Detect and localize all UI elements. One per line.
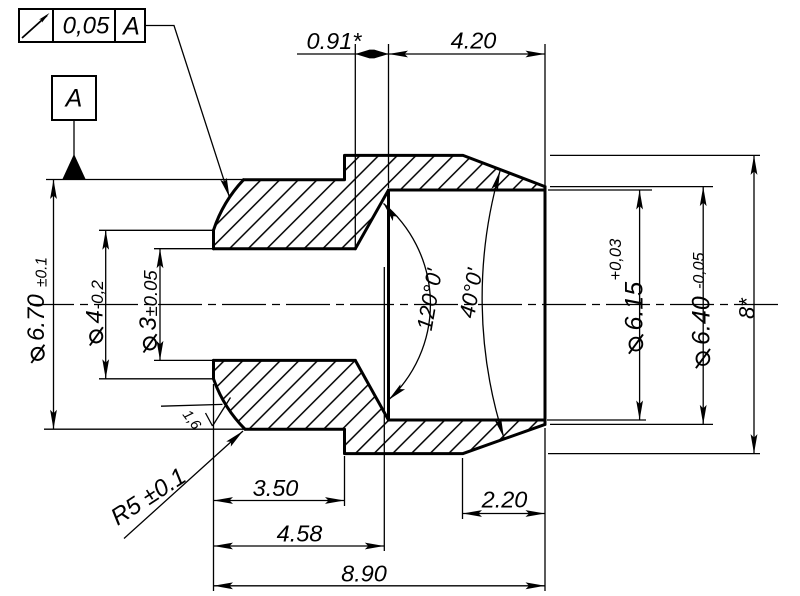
3.50 arrows — [214, 497, 234, 504]
4.58 arrows — [214, 543, 234, 550]
svg-text:A: A — [121, 13, 140, 41]
dim line 0.91 and 4.20 — [297, 53, 545, 55]
datum box — [52, 76, 96, 120]
hatch upper section — [205, 145, 555, 260]
svg-text:8.90: 8.90 — [341, 561, 387, 587]
centerline — [30, 304, 778, 306]
R5 leader arrow — [226, 428, 245, 446]
ext line 2.20 left — [462, 458, 464, 519]
svg-text:6.15: 6.15 — [621, 282, 649, 331]
ext line bottom left common — [213, 384, 215, 591]
ext line dia3 bottom — [154, 359, 213, 361]
svg-text:3.50: 3.50 — [253, 475, 299, 501]
svg-text:6.70: 6.70 — [23, 294, 50, 341]
tolerance frame — [19, 9, 145, 42]
tolerance leader arrow — [220, 178, 232, 199]
roughness tail — [161, 404, 223, 406]
leader tolerance frame — [145, 26, 230, 198]
dim line dia6.15 — [639, 190, 641, 420]
R5 corner bottom — [214, 379, 246, 429]
svg-text:-0,2: -0,2 — [88, 280, 107, 310]
dia 4 value — [82, 310, 109, 345]
dia 3 value — [135, 317, 162, 353]
cone 120 bottom — [355, 360, 388, 420]
svg-text:0.91*: 0.91* — [307, 28, 363, 54]
svg-text:4: 4 — [82, 310, 109, 323]
dim line 2.20 — [463, 513, 546, 515]
0.91 diamond arrows — [355, 50, 388, 59]
cone 120 top — [355, 190, 388, 249]
8.90 arrows — [214, 582, 234, 589]
svg-text:6.40: 6.40 — [688, 296, 716, 345]
dia3 arrows — [157, 249, 164, 269]
bore line top (dia 3) — [214, 247, 356, 250]
dia 6.40 value — [688, 296, 716, 368]
svg-text:-0,05: -0,05 — [691, 252, 708, 289]
ext line 4.20 right — [544, 44, 546, 185]
svg-text:±0.1: ±0.1 — [34, 257, 51, 287]
dim line 8.90 — [214, 585, 546, 587]
dim line 3.50 — [214, 500, 345, 502]
dia4 arrows — [102, 230, 109, 250]
ext line 0.91 right / 4.20 left — [388, 44, 390, 188]
left face lower — [212, 360, 215, 378]
dia6.40 arrows — [700, 187, 707, 207]
4.20 arrows — [389, 51, 409, 58]
ext line 3.50 right — [344, 456, 346, 506]
dia6.70 arrows — [50, 180, 57, 200]
ext line 0.91 left — [354, 44, 356, 248]
bore line top (dia 6.15) — [389, 189, 546, 192]
svg-text:4.20: 4.20 — [451, 28, 497, 54]
dia6.15 arrows — [636, 190, 643, 210]
svg-text:±0.05: ±0.05 — [140, 270, 161, 317]
bore line bottom (dia 3) — [214, 359, 356, 362]
120deg arc arrows — [381, 201, 398, 221]
ext line dia8 top right — [550, 154, 760, 156]
datum triangle — [63, 154, 86, 179]
svg-text:3: 3 — [135, 317, 162, 331]
ext line dia6.15 bottom — [547, 419, 646, 421]
ext line dia6.15 top — [548, 189, 652, 191]
leader R5 — [124, 431, 243, 539]
roughness short leg — [206, 413, 213, 426]
outer profile bottom — [245, 424, 545, 453]
roughness long leg — [213, 398, 231, 427]
svg-text:0,05: 0,05 — [63, 13, 110, 40]
arc 40 deg — [482, 171, 504, 438]
2.20 arrows — [463, 510, 483, 517]
ext line dia8 bottom right — [548, 453, 760, 455]
ext line 4.58 right — [383, 267, 385, 551]
svg-text:2.20: 2.20 — [481, 487, 528, 513]
dia 6.70 value — [23, 294, 50, 363]
runout symbol — [22, 11, 51, 38]
svg-text:8*: 8* — [735, 297, 760, 319]
ext line dia4 bottom — [99, 378, 213, 380]
R5 corner top — [214, 180, 244, 230]
svg-text:A: A — [64, 85, 83, 113]
ext line dia6.70 bottom — [44, 428, 246, 430]
outer profile top — [244, 155, 546, 186]
arc 120 deg — [384, 204, 431, 401]
hatch lower section — [205, 350, 555, 465]
cone base edge — [387, 190, 390, 420]
ext line dia6.40 bottom — [550, 423, 713, 425]
part outline — [214, 155, 546, 453]
svg-text:4.58: 4.58 — [277, 521, 323, 547]
ext line dia6.70 top — [46, 179, 244, 181]
40deg arc arrows — [491, 170, 503, 191]
dim line 4.58 — [214, 545, 385, 547]
left face upper — [212, 230, 215, 249]
dim line dia6.70 — [53, 180, 55, 430]
right face — [544, 187, 547, 425]
8star arrows — [751, 155, 758, 175]
ext line dia4 top — [99, 229, 213, 231]
dim line dia4 — [105, 230, 107, 378]
dim line dia3 — [159, 249, 161, 361]
ext line dia6.40 top — [550, 186, 713, 188]
datum leader — [73, 120, 75, 156]
dim line dia6.40 — [702, 187, 704, 425]
dia 6.15 value — [621, 282, 649, 354]
dim line 8star — [753, 155, 755, 453]
ext line 2.20/8.90 right — [544, 428, 546, 591]
ext line dia3 top — [154, 248, 213, 250]
bore line bottom (dia 6.15) — [389, 419, 546, 422]
svg-text:+0,03: +0,03 — [607, 238, 625, 281]
